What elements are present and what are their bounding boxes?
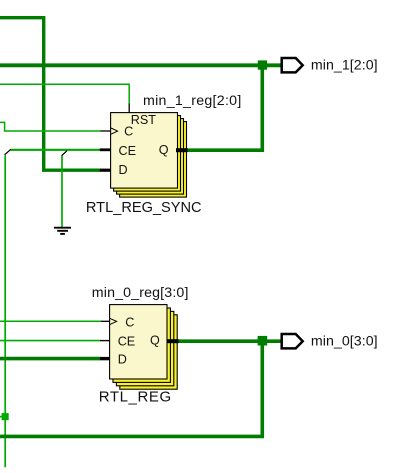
pin stub RST (min_1_reg) [128,104,130,114]
register min_1_reg body [111,113,178,189]
wire: net to C of min_1_reg (with step) [0,122,101,131]
output port min_1 [282,58,303,72]
svg-text:min_0_reg[3:0]: min_0_reg[3:0] [92,285,189,301]
wire: bus to D of min_0_reg [0,357,100,361]
wire: long vertical net down left side [4,155,6,467]
wire: net to C of min_0_reg [0,320,101,322]
svg-text:RTL_REG: RTL_REG [99,389,172,406]
wire: vertical to ground [61,156,63,228]
register min_1_reg stacked layers [111,113,187,198]
pin stub D (min_1_reg) [100,169,111,172]
junction dot on left vertical [2,413,9,420]
svg-text:Q: Q [150,333,160,347]
svg-text:C: C [125,316,134,330]
svg-text:C: C [124,124,133,138]
svg-text:Q: Q [159,143,169,157]
pin stub CE (min_0_reg) [100,340,110,342]
wire: net to CE of min_0_reg [0,340,100,342]
wire: net to RST of min_1_reg [0,84,129,104]
svg-text:RST: RST [131,113,156,127]
svg-text:CE: CE [118,335,136,349]
pin stub C (min_0_reg) [101,320,110,322]
wire: Q of min_1_reg up to min_1 bus [187,65,262,150]
clock triangle C (min_0_reg) [110,318,117,324]
output port min_0 [282,334,303,348]
pin stub CE (min_1_reg) [100,148,111,151]
junction dot at min_0 net [258,336,268,346]
pin stub D (min_0_reg) [100,357,110,360]
wire: min_1 output bus across to port [0,63,281,67]
wire: min_0 feedback down and left to edge [0,341,262,436]
register min_0_reg stacked layers [110,305,178,390]
net rip at CE wire left end [5,149,11,155]
wire: bus from left edge into D of min_1_reg (elbow) [0,18,100,171]
junction dot at min_1 bus [258,60,267,69]
svg-text:D: D [118,352,127,366]
clock triangle C (min_1_reg) [111,128,118,134]
net rip to ground tap [62,151,67,156]
wire: stub from left edge to junction [0,416,6,418]
svg-text:CE: CE [119,144,137,158]
svg-text:min_0[3:0]: min_0[3:0] [311,334,378,350]
wire: Q of min_0_reg to min_0 port [178,339,281,343]
svg-text:min_1[2:0]: min_1[2:0] [311,58,378,74]
pin names min_0_reg [118,316,160,367]
wire: net to CE of min_1_reg [10,149,100,151]
register min_0_reg body [110,305,167,379]
svg-text:D: D [119,163,128,177]
svg-text:RTL_REG_SYNC: RTL_REG_SYNC [86,200,202,216]
svg-text:min_1_reg[2:0]: min_1_reg[2:0] [143,93,242,109]
pin stub C (min_1_reg) [100,130,111,132]
ground [54,228,71,234]
pin names min_1_reg [119,113,169,177]
pin stub Q (min_0_reg) [167,339,179,343]
pin stub Q (min_1_reg) [176,148,188,152]
